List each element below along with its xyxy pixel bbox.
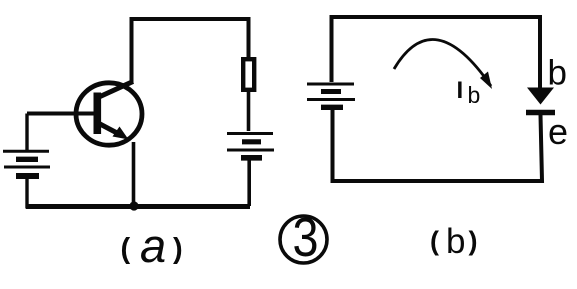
node junction dot on bottom rail — [129, 201, 138, 210]
wire top rail of circuit (b) with left drop to battery B3 and right drop to diode — [332, 17, 541, 88]
battery B2 plate long top — [227, 132, 273, 135]
svg-text:b: b — [468, 82, 481, 108]
wire battery 1 to bottom rail — [25, 179, 28, 209]
wire bottom rail of circuit (a) — [26, 204, 250, 209]
wire base lead — [27, 112, 94, 116]
wire resistor to battery 2 — [247, 92, 251, 131]
transistor Q1 body circle — [76, 83, 142, 145]
battery B3 plate long top — [307, 83, 354, 86]
transistor Q1 emitter arrowhead — [113, 127, 129, 140]
battery B3 plate long lower — [307, 98, 355, 101]
svg-text:): ) — [469, 226, 478, 256]
battery B2 plate long lower — [227, 149, 274, 152]
wire battery 2 to bottom rail — [247, 161, 251, 207]
battery B3 plate short thick — [321, 89, 341, 94]
svg-text:(: ( — [430, 226, 439, 256]
wire emitter to bottom rail — [132, 142, 136, 206]
wire top rail of circuit (a) with collector riser and right drop — [132, 19, 249, 84]
battery B3 plate short thick lower — [321, 105, 343, 110]
wire base lead to battery 1 — [25, 114, 28, 151]
battery B1 plate long lower — [4, 166, 50, 169]
resistor R (collector load) — [243, 59, 254, 90]
transistor Q1 emitter stroke — [99, 124, 119, 135]
battery B2 plate short thick — [242, 139, 261, 144]
svg-text:a: a — [140, 219, 166, 272]
svg-text:b: b — [446, 222, 465, 261]
svg-text:(: ( — [121, 233, 131, 265]
battery B2 plate short thick lower — [241, 155, 262, 161]
current arc arrowhead — [480, 72, 492, 90]
svg-text:b: b — [548, 54, 567, 93]
svg-text:e: e — [548, 111, 568, 152]
diode D (b-e junction) triangle — [527, 88, 554, 105]
svg-text:): ) — [173, 233, 183, 265]
battery B1 plate short thick — [16, 157, 38, 162]
battery B1 plate long top — [3, 150, 49, 153]
transistor Q1 collector stroke — [99, 82, 133, 98]
battery B1 plate short thick lower — [16, 173, 39, 179]
transistor Q1 base bar — [94, 93, 102, 135]
svg-text:3: 3 — [293, 206, 319, 267]
diode D cathode bar — [526, 110, 555, 116]
wire bottom rail of circuit (b) with left riser from battery B3 and right riser from diode — [333, 110, 543, 182]
current direction arc Ib — [394, 40, 491, 86]
figure number 3 circled — [280, 216, 327, 263]
svg-text:I: I — [457, 77, 464, 104]
